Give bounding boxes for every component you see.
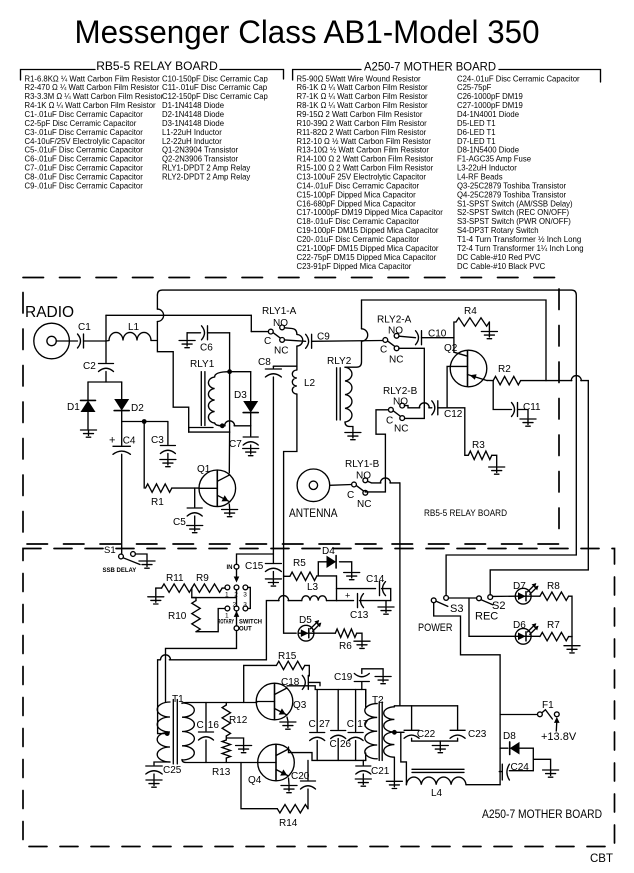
capacitor C23	[457, 706, 459, 731]
transistor Q1	[199, 470, 236, 507]
svg-text:Messenger Class AB1-Model 350: Messenger Class AB1-Model 350	[75, 14, 540, 50]
ground below C5	[187, 526, 203, 533]
svg-text:+13.8V: +13.8V	[541, 731, 577, 743]
svg-text:C3: C3	[151, 435, 164, 446]
svg-text:S1: S1	[104, 545, 116, 556]
inductor L2	[292, 370, 297, 394]
resistor R12	[222, 705, 230, 736]
svg-text:3: 3	[243, 592, 247, 599]
wire Q2 emitter to R2	[487, 379, 493, 381]
wire R14 to Q4 base	[241, 763, 277, 809]
wire R5 to D4/L3 node	[317, 575, 337, 577]
svg-text:RLY1: RLY1	[190, 359, 215, 370]
wire Q1 emitter to ground	[228, 504, 230, 509]
wire R12/R13 to ground	[226, 738, 243, 745]
svg-text:R14: R14	[279, 818, 298, 829]
parts list	[25, 73, 584, 270]
svg-text:R5: R5	[293, 558, 306, 569]
svg-text:NC: NC	[394, 424, 408, 435]
capacitor C11	[493, 381, 511, 410]
wire OUT to T1 primary	[166, 631, 237, 702]
svg-text:RLY1-B: RLY1-B	[345, 459, 380, 470]
node T1 tap	[165, 731, 170, 736]
svg-text:L4: L4	[431, 788, 443, 799]
ground below R7	[564, 646, 580, 653]
wire C2 to limiter node	[105, 372, 107, 383]
resistor R2	[493, 376, 520, 384]
ground below Q3	[280, 722, 296, 729]
resistor R4	[454, 322, 456, 338]
wire Q4 emitter to ground	[288, 778, 291, 785]
svg-text:D8: D8	[503, 731, 516, 742]
transistor Q2	[450, 350, 487, 387]
svg-text:NC: NC	[389, 355, 403, 366]
ground below C11	[520, 419, 536, 426]
svg-text:RB5-5 RELAY BOARD: RB5-5 RELAY BOARD	[96, 59, 218, 73]
relay coil bottom wire to collector line	[189, 428, 213, 433]
svg-text:C: C	[386, 416, 393, 427]
wire tap to C22	[394, 731, 404, 733]
capacitors C27 C26 C17 bank	[316, 690, 318, 732]
capacitor C24	[509, 770, 533, 772]
ground below R3	[489, 467, 505, 474]
svg-text:L3: L3	[307, 582, 319, 593]
svg-text:D1: D1	[67, 402, 80, 413]
svg-text:F1: F1	[542, 700, 554, 711]
svg-text:R2: R2	[498, 364, 511, 375]
svg-text:L1: L1	[128, 322, 140, 333]
capacitor C8	[272, 366, 274, 368]
svg-text:C24: C24	[511, 762, 530, 773]
wire T1 to Q4 base	[182, 760, 258, 763]
svg-text:RLY1-A: RLY1-A	[262, 306, 297, 317]
ground below C21	[355, 779, 371, 786]
resistor R14	[277, 805, 308, 813]
svg-text:C: C	[309, 719, 316, 730]
resistor R15	[244, 665, 277, 702]
fuse F1	[500, 714, 537, 716]
wire T2 primary top to bus	[365, 690, 367, 708]
wire node down to C2	[105, 341, 107, 363]
antenna coax connector J2	[297, 469, 330, 502]
wire D1 to ground	[87, 412, 89, 429]
resistor R11	[156, 587, 162, 589]
svg-text:C12: C12	[444, 409, 463, 420]
wire T1 to Q3 base	[182, 703, 257, 704]
wire RLY1-B NO to T2 line with hop	[367, 481, 400, 483]
svg-text:A250-7 MOTHER BOARD: A250-7 MOTHER BOARD	[364, 60, 496, 74]
svg-text:CBT: CBT	[590, 853, 613, 865]
node relay coil top	[227, 369, 232, 374]
svg-text:R12: R12	[229, 715, 248, 726]
wire L2 down to mother board	[284, 394, 297, 575]
wire C8 down to C15	[272, 377, 274, 564]
wire C10 to Q2/R4	[422, 337, 454, 339]
svg-text:OUT: OUT	[239, 627, 252, 633]
wire radio to C1	[56, 340, 77, 342]
power leg from top bus down left side	[157, 295, 229, 432]
diode D2	[121, 382, 123, 399]
svg-text:C: C	[380, 345, 387, 356]
svg-text:C25: C25	[163, 765, 182, 776]
capacitor C25	[154, 762, 170, 765]
bracket RB5-5 list	[21, 70, 284, 81]
svg-text:+: +	[109, 435, 115, 447]
svg-text:C4: C4	[123, 436, 136, 447]
svg-text:C7: C7	[229, 439, 242, 450]
svg-text:D2: D2	[131, 403, 144, 414]
svg-text:R15: R15	[278, 651, 297, 662]
svg-text:R7: R7	[547, 620, 560, 631]
svg-text:C11: C11	[523, 402, 541, 413]
svg-text:RLY2: RLY2	[327, 356, 352, 367]
ground at S1	[139, 561, 155, 568]
svg-text:A250-7 MOTHER BOARD: A250-7 MOTHER BOARD	[482, 809, 602, 821]
radio coax connector J1	[34, 323, 70, 359]
transistor Q3	[256, 683, 293, 720]
capacitor C3	[167, 422, 169, 445]
wire C12 to R3	[447, 408, 468, 456]
wire Q3 collector to output bus	[287, 686, 366, 704]
svg-text:C1: C1	[78, 322, 91, 333]
svg-text:C5: C5	[173, 517, 186, 528]
RB5-5 relay board dashed outline	[23, 278, 559, 545]
svg-text:16: 16	[208, 720, 220, 731]
top power bus	[157, 290, 576, 555]
svg-text:R8: R8	[547, 581, 560, 592]
wire RLY1-A NC to C9	[285, 340, 306, 341]
wire R2 to S2	[490, 381, 588, 595]
svg-text:C13: C13	[350, 610, 369, 621]
wire node up to RF line	[105, 315, 107, 341]
svg-text:Q4: Q4	[248, 775, 262, 786]
T2 primary winding	[365, 704, 377, 759]
svg-text:SWITCH: SWITCH	[239, 620, 262, 626]
diode D3	[230, 371, 251, 373]
wire L2 line down to D5	[284, 575, 297, 633]
ground below C15	[265, 579, 281, 586]
svg-text:ROTARY: ROTARY	[218, 620, 235, 626]
svg-text:C23-91pF Dipped Mica Capacitor: C23-91pF Dipped Mica Capacitor	[297, 261, 412, 271]
svg-text:C21: C21	[371, 766, 390, 777]
svg-text:DC Cable-#10 Black PVC: DC Cable-#10 Black PVC	[457, 261, 545, 271]
svg-text:D6: D6	[513, 620, 526, 631]
svg-text:NC: NC	[274, 346, 288, 357]
A250-7 mother board dashed outline	[23, 549, 615, 847]
LED D7	[515, 588, 531, 604]
svg-text:R13: R13	[212, 767, 231, 778]
svg-text:C: C	[197, 720, 204, 731]
wire RLY2-A NO to C10	[399, 336, 416, 338]
wire Q2 base down to C12/R3	[447, 366, 450, 407]
svg-text:R3: R3	[472, 440, 485, 451]
wire R1 to Q1 base	[172, 487, 199, 489]
rotary contact row2-1	[225, 606, 230, 611]
wire rotary to OUT	[236, 611, 238, 626]
bracket A250-7 list	[293, 70, 601, 83]
capacitor C18	[302, 675, 308, 689]
svg-text:IN: IN	[227, 565, 233, 571]
capacitor C21	[362, 760, 364, 765]
wire L1 to power leg	[151, 340, 157, 342]
wire L3 to R5 node	[327, 576, 337, 601]
svg-text:C15: C15	[245, 561, 264, 572]
diode D8	[500, 747, 508, 749]
wire node to L1	[106, 340, 109, 343]
svg-text:C: C	[347, 719, 354, 730]
wire RLY1-B NO down to T2	[399, 483, 401, 706]
inductor L1	[109, 332, 151, 340]
resistor R7	[540, 632, 569, 640]
wire L3 to T1 tap	[158, 601, 302, 734]
svg-text:RADIO: RADIO	[25, 304, 74, 321]
wire D2 to C4 rail	[121, 411, 123, 422]
wire T2 secondary bottom to ground	[393, 757, 395, 780]
wire S3 to +13.8V rail	[434, 603, 500, 785]
capacitor C2	[99, 364, 114, 372]
capacitor C4 electrolytic	[121, 422, 123, 446]
svg-text:R10: R10	[168, 611, 187, 622]
ground at D8	[543, 770, 559, 777]
ground below Q1	[222, 510, 238, 517]
svg-text:RLY2-DPDT 2 Amp Relay: RLY2-DPDT 2 Amp Relay	[162, 172, 251, 182]
capacitor C13 electrolytic	[337, 600, 354, 602]
svg-text:RLY2-A: RLY2-A	[377, 315, 412, 326]
svg-text:C19: C19	[334, 672, 353, 683]
svg-text:C2: C2	[83, 361, 96, 372]
capacitor C15	[237, 554, 274, 564]
LED D7 and resistor R8	[493, 595, 516, 597]
resistor R5	[284, 575, 290, 577]
wire Q4 collector to bottom bus	[289, 747, 366, 760]
wire RLY2-A NC down to RLY2-B NC	[399, 348, 425, 418]
LED D5	[298, 625, 314, 641]
capacitor C16	[205, 703, 207, 732]
svg-text:R11: R11	[166, 573, 184, 584]
svg-text:L2: L2	[304, 378, 316, 389]
wire T2 secondary top	[394, 706, 457, 707]
ground below T2 secondary	[386, 781, 402, 788]
wire D3 to coil bottom with hop	[222, 425, 250, 427]
wire Q3 emitter to ground	[286, 717, 289, 721]
resistor R9	[192, 584, 222, 592]
wire C6 to coil top	[229, 333, 231, 372]
capacitor C9	[306, 334, 312, 348]
ground at R12/R13	[236, 746, 252, 753]
resistor R8	[540, 592, 569, 600]
svg-text:27: 27	[319, 719, 331, 730]
label C17	[347, 719, 369, 730]
wire R10 to rotary	[196, 609, 225, 632]
ground at C19	[375, 677, 391, 684]
label C27	[309, 719, 331, 730]
capacitor C12	[432, 401, 438, 415]
svg-text:D5: D5	[299, 615, 312, 626]
resistor R3	[468, 451, 492, 459]
svg-text:26: 26	[340, 739, 352, 750]
svg-text:Q1: Q1	[197, 464, 211, 475]
diode D1	[87, 382, 89, 400]
capacitor C20 and resistor R14	[307, 760, 309, 780]
svg-text:C8: C8	[258, 357, 271, 368]
ground below R6	[354, 641, 370, 648]
wire Q1 collector up to relay coil	[228, 432, 230, 473]
svg-text:RB5-5 RELAY BOARD: RB5-5 RELAY BOARD	[424, 508, 507, 518]
resistor R10	[192, 588, 196, 601]
wire S3 to S2	[449, 597, 477, 599]
node coil bottom	[220, 423, 225, 428]
ground below C22/C23	[432, 746, 448, 753]
svg-text:R4: R4	[464, 306, 477, 317]
ground at C13/C14	[378, 607, 394, 614]
svg-text:D3: D3	[234, 390, 247, 401]
capacitor C14	[337, 588, 376, 590]
rotary switch S4	[227, 565, 233, 571]
resistors R12 R13	[225, 703, 227, 706]
svg-text:C: C	[264, 336, 271, 347]
ground below D1	[81, 430, 97, 437]
capacitor C10	[416, 331, 422, 345]
svg-text:NC: NC	[357, 499, 371, 510]
T1 primary winding	[157, 702, 170, 762]
capacitor C1	[78, 334, 84, 348]
ground at D4	[344, 573, 360, 580]
node junction at C4 rail	[142, 419, 147, 424]
svg-text:C23: C23	[468, 729, 487, 740]
svg-text:ANTENNA: ANTENNA	[289, 506, 338, 520]
wire antenna to RLY1-B common	[330, 484, 352, 487]
svg-text:S3: S3	[450, 603, 463, 615]
ground below C25	[146, 780, 162, 787]
svg-text:POWER: POWER	[418, 622, 453, 634]
svg-text:D7: D7	[513, 581, 526, 592]
resistor R1	[143, 422, 145, 489]
wire C9 to RLY2-A common	[312, 340, 383, 343]
svg-text:R1: R1	[151, 497, 164, 508]
capacitor C7	[250, 426, 252, 436]
ground below RLY2 coil	[345, 433, 361, 440]
svg-text:REC: REC	[475, 611, 498, 623]
svg-text:C20: C20	[291, 771, 310, 782]
T1 secondary winding	[182, 703, 194, 760]
svg-text:SSB DELAY: SSB DELAY	[103, 568, 137, 574]
capacitor C5	[194, 488, 196, 507]
svg-text:RLY2-B: RLY2-B	[383, 386, 418, 397]
rotary contact row1-1	[225, 585, 230, 590]
wire to Q2 collector	[453, 338, 455, 353]
LED D6	[515, 628, 531, 644]
svg-text:C14: C14	[366, 574, 385, 585]
ground at C6	[179, 341, 195, 348]
wire RLY2-B NO to C12 with hop	[404, 406, 431, 408]
bus wire to RLY2 coil and R2 line	[362, 300, 547, 381]
capacitor C6 with ground	[187, 332, 200, 334]
resistor R13	[222, 740, 230, 758]
ground at R11	[148, 597, 164, 604]
LED D6 and resistor R7	[469, 598, 515, 636]
inductor L3	[302, 596, 327, 601]
capacitor C19	[354, 674, 369, 682]
resistor R6	[335, 629, 356, 637]
svg-text:C: C	[330, 739, 337, 750]
ground below C7	[243, 449, 259, 456]
wire C1 to node	[84, 340, 107, 342]
svg-text:C: C	[347, 490, 354, 501]
rotary IN terminal	[234, 564, 239, 569]
wire S3 to relay top bus	[446, 555, 576, 596]
svg-text:C6: C6	[200, 343, 213, 354]
svg-text:C22: C22	[417, 729, 436, 740]
label C26	[330, 739, 352, 750]
svg-text:R6: R6	[339, 641, 352, 652]
wire C8 to L2 node	[273, 365, 297, 367]
ground below C3	[160, 460, 176, 467]
svg-text:1: 1	[225, 613, 229, 620]
rotary OUT terminal	[234, 626, 239, 631]
wire rotary 3-3	[248, 587, 251, 608]
wire RLY1-A NO bend down to L2/C8 node with hop	[285, 328, 297, 370]
transistor Q4	[258, 744, 295, 781]
svg-text:Q3: Q3	[293, 700, 307, 711]
svg-text:Q2: Q2	[444, 343, 458, 354]
svg-text:D4: D4	[322, 546, 335, 557]
wire rotary common	[192, 590, 237, 606]
ground below Q4	[281, 786, 297, 793]
svg-text:C9-.01uF Disc Cerramic Capacit: C9-.01uF Disc Cerramic Capacitor	[25, 181, 143, 191]
wire C4 to S1	[121, 454, 123, 554]
svg-text:R9: R9	[196, 573, 209, 584]
wire L4 to power rail	[466, 784, 500, 786]
wire RF line to RLY1-A	[106, 314, 251, 316]
wire RLY1-B NC up to RLY2-B common	[365, 410, 388, 492]
ground below R4	[481, 332, 497, 339]
relay RLY1 coil	[200, 372, 202, 426]
svg-text:+: +	[345, 591, 350, 601]
node T2 tap	[392, 730, 397, 735]
diode D4	[318, 562, 326, 576]
wire C4 rail	[122, 421, 168, 423]
wire limiter rail	[88, 381, 122, 383]
wire tap to L4	[401, 732, 407, 784]
T2 secondary winding	[384, 707, 395, 757]
capacitor C22	[411, 706, 413, 731]
